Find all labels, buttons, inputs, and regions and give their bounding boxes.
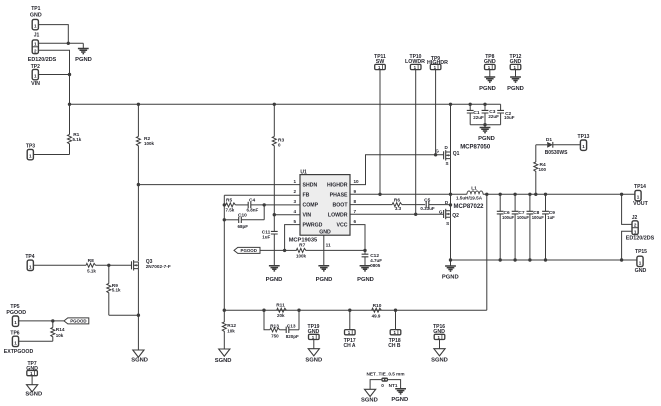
- svg-text:SGND: SGND: [361, 398, 378, 404]
- svg-text:2: 2: [634, 223, 637, 228]
- wire FB vertical: [223, 195, 225, 310]
- svg-text:49.9: 49.9: [372, 313, 381, 318]
- svg-text:1: 1: [637, 195, 640, 200]
- capacitor C8: [527, 194, 545, 260]
- junction VIN rail / C1: [469, 103, 472, 106]
- svg-text:GND: GND: [30, 13, 42, 19]
- resistor R3: [272, 104, 284, 231]
- wire Q2 PGND stub: [450, 260, 452, 266]
- junction FB/C10: [223, 218, 226, 221]
- svg-text:MCP87022: MCP87022: [454, 204, 485, 210]
- junction C9 bottom: [544, 258, 547, 261]
- wire TP7 stub: [31, 376, 33, 385]
- wire VIN rail: [68, 103, 500, 105]
- svg-text:C10: C10: [238, 212, 247, 218]
- wire PGOOD to junction: [260, 249, 285, 251]
- wire Q3 source to SGND: [137, 269, 139, 350]
- junction VIN rail / R1: [68, 103, 71, 106]
- svg-text:750: 750: [271, 334, 279, 339]
- test point TP18: [388, 330, 401, 349]
- svg-text:5.1k: 5.1k: [73, 137, 82, 142]
- wire HIGHDR to gate: [350, 155, 444, 185]
- junction SW/Q1-Q2: [449, 193, 452, 196]
- svg-text:6: 6: [354, 219, 357, 224]
- net tie NT1: [366, 371, 404, 389]
- svg-text:GND: GND: [26, 366, 38, 372]
- wire LOWDR pin 7: [350, 213, 444, 215]
- wire VCC pin 6: [350, 225, 365, 255]
- svg-text:R8: R8: [88, 258, 94, 264]
- wire R13 branch left: [264, 310, 270, 330]
- svg-text:TP13: TP13: [578, 134, 590, 140]
- svg-text:68pF: 68pF: [238, 224, 249, 229]
- svg-text:Q1: Q1: [453, 151, 460, 157]
- wire Q1 source to SW: [450, 159, 452, 195]
- ground SGND (TP19): [305, 349, 322, 364]
- resistor R12: [222, 310, 236, 349]
- svg-text:VOUT: VOUT: [633, 201, 648, 207]
- connector J1: [28, 32, 57, 63]
- junction C6 bottom: [499, 258, 502, 261]
- junction divider/R13: [262, 309, 265, 312]
- svg-text:C4: C4: [249, 197, 255, 203]
- svg-text:100: 100: [539, 167, 547, 172]
- wire TP4 to R8: [33, 264, 86, 266]
- svg-text:0.33uF: 0.33uF: [420, 206, 435, 211]
- svg-text:100k: 100k: [296, 253, 307, 258]
- pin number 4: [293, 209, 296, 214]
- svg-text:1: 1: [14, 320, 17, 325]
- svg-text:5: 5: [293, 219, 296, 224]
- svg-text:PGOOD: PGOOD: [241, 248, 257, 253]
- junction TP5/R14: [51, 319, 54, 322]
- ground PGND (input): [75, 49, 92, 64]
- svg-text:PGND: PGND: [478, 136, 495, 142]
- svg-text:SGND: SGND: [431, 358, 448, 364]
- svg-text:LOWDR: LOWDR: [405, 59, 425, 65]
- capacitor C7: [512, 194, 530, 260]
- transistor Q2: [439, 200, 459, 226]
- resistor R1: [68, 104, 82, 154]
- svg-text:PGND: PGND: [391, 397, 408, 403]
- capacitor C10: [224, 212, 264, 229]
- junction BOOT/SW: [449, 203, 452, 206]
- svg-text:PGND: PGND: [479, 86, 496, 92]
- pin number 5: [293, 219, 296, 224]
- wire C13 branch right: [298, 310, 300, 330]
- wire SHDN: [138, 184, 300, 186]
- svg-text:D1: D1: [546, 137, 552, 143]
- junction VOUT/J2: [620, 193, 623, 196]
- label MCP87050: [460, 145, 491, 151]
- svg-text:SGND: SGND: [25, 392, 42, 398]
- pin number 9: [354, 189, 357, 194]
- svg-text:2N7002-7-F: 2N7002-7-F: [146, 264, 171, 269]
- test point TP10: [405, 54, 425, 70]
- svg-text:1: 1: [639, 260, 642, 265]
- svg-text:SGND: SGND: [131, 357, 148, 363]
- svg-text:1: 1: [293, 179, 296, 184]
- ground SGND (R12): [215, 349, 232, 364]
- resistor R11: [276, 303, 286, 318]
- svg-text:PGOOD: PGOOD: [70, 319, 86, 324]
- test point TP3: [26, 143, 35, 159]
- op-amp U1 MCP19035 box: [289, 170, 350, 244]
- svg-text:100k: 100k: [144, 141, 155, 146]
- wire Q1 drain: [450, 104, 452, 152]
- diode D1: [536, 137, 581, 156]
- svg-text:10k: 10k: [227, 328, 235, 333]
- capacitor C9: [542, 194, 555, 260]
- test point TP2: [31, 64, 40, 87]
- junction VCC/R7: [363, 249, 366, 252]
- wire R9 to Q3 source: [109, 314, 139, 316]
- junction divider/TP17: [348, 309, 351, 312]
- svg-text:PGND: PGND: [507, 86, 524, 92]
- svg-text:4: 4: [293, 209, 296, 214]
- svg-text:GND: GND: [308, 329, 320, 335]
- svg-text:1uF: 1uF: [547, 215, 555, 220]
- junction VOUT/C8: [528, 193, 531, 196]
- test point TP11: [374, 54, 386, 70]
- ground PGND (C11): [266, 266, 283, 283]
- svg-text:TP2: TP2: [31, 64, 40, 70]
- ground SGND (TP7): [25, 385, 42, 398]
- svg-text:10: 10: [354, 179, 360, 184]
- svg-text:1: 1: [34, 24, 37, 29]
- junction VIN rail / C3: [483, 103, 486, 106]
- svg-text:B0530WS: B0530WS: [545, 150, 568, 156]
- svg-text:R5: R5: [226, 197, 232, 203]
- junction C8 bottom: [528, 258, 531, 261]
- svg-text:0805: 0805: [370, 263, 381, 268]
- svg-text:100uF: 100uF: [502, 215, 515, 220]
- svg-text:TP6: TP6: [10, 330, 19, 336]
- wire J2 pin1 to gnd: [622, 231, 632, 260]
- svg-text:CH A: CH A: [343, 343, 355, 349]
- svg-text:7.5k: 7.5k: [226, 207, 235, 212]
- svg-text:10uF: 10uF: [504, 115, 515, 120]
- test point TP7: [26, 361, 38, 376]
- svg-text:R10: R10: [373, 303, 382, 309]
- svg-text:GND: GND: [635, 268, 647, 274]
- test point TP16: [433, 324, 445, 340]
- svg-text:100uF: 100uF: [517, 215, 530, 220]
- pin number 7: [354, 209, 357, 214]
- capacitor C6: [497, 194, 515, 260]
- test point TP12: [510, 54, 522, 70]
- resistor R5: [224, 197, 248, 212]
- svg-text:G: G: [435, 149, 439, 154]
- wire C2 branch: [500, 104, 502, 110]
- test point TP4: [25, 254, 34, 271]
- svg-text:VCC: VCC: [337, 223, 348, 229]
- junction R9/Q3 source: [137, 314, 140, 317]
- svg-text:2: 2: [34, 49, 37, 54]
- wire output ground rail: [451, 259, 622, 261]
- resistor R7: [285, 242, 365, 258]
- svg-text:TP1: TP1: [31, 6, 40, 12]
- capacitor C2: [497, 110, 515, 124]
- svg-text:PGND: PGND: [75, 57, 92, 63]
- junction Q2/gnd rail: [449, 258, 452, 261]
- svg-text:8: 8: [354, 199, 357, 204]
- pin number 6: [354, 219, 357, 224]
- svg-text:R7: R7: [299, 242, 305, 248]
- wire TP8 stub: [489, 70, 491, 77]
- svg-text:FB: FB: [303, 193, 310, 199]
- wire TP10 to LOWDR: [415, 70, 417, 215]
- ground PGND (pin 11): [316, 266, 333, 283]
- wire TP17 stub: [349, 310, 351, 329]
- svg-text:C5: C5: [424, 197, 430, 203]
- wire Q2 drain: [450, 194, 452, 210]
- resistor R8: [86, 258, 131, 274]
- svg-text:GND: GND: [484, 59, 496, 65]
- svg-text:SW: SW: [376, 59, 385, 65]
- resistor R13: [270, 324, 286, 339]
- svg-text:5.1k: 5.1k: [112, 288, 121, 293]
- svg-text:ED120/2DS: ED120/2DS: [626, 236, 655, 242]
- junction divider/R12: [223, 309, 226, 312]
- svg-text:PHASE: PHASE: [330, 193, 348, 199]
- svg-text:MCP87050: MCP87050: [460, 145, 491, 151]
- wire J1 pin2 to VIN rail: [38, 50, 69, 104]
- wire J2 pin2: [622, 194, 632, 224]
- svg-text:R13: R13: [270, 324, 279, 330]
- wire R4 top corner: [535, 173, 537, 194]
- svg-text:Q2: Q2: [452, 213, 459, 219]
- svg-text:1: 1: [14, 340, 17, 345]
- svg-text:U1: U1: [300, 170, 307, 176]
- svg-text:VIN: VIN: [303, 213, 312, 219]
- test point TP15: [635, 249, 648, 274]
- svg-text:SGND: SGND: [305, 358, 322, 364]
- resistor R2: [136, 104, 154, 261]
- svg-text:PGND: PGND: [266, 277, 283, 283]
- svg-text:1: 1: [29, 264, 32, 269]
- capacitor C5: [420, 197, 450, 211]
- wire TP3 to R1: [33, 154, 69, 156]
- test point TP17: [343, 330, 355, 349]
- test point TP8: [484, 54, 496, 70]
- capacitor C13: [286, 324, 299, 340]
- net label PGOOD (U1): [234, 247, 260, 253]
- wire input caps bottom tie: [470, 124, 500, 126]
- svg-text:20k: 20k: [277, 313, 285, 318]
- svg-text:G: G: [439, 209, 443, 214]
- capacitor C1: [467, 104, 484, 124]
- pin number 3: [293, 199, 296, 204]
- svg-text:COMP: COMP: [303, 203, 319, 209]
- capacitor C12: [362, 253, 383, 268]
- wire TP18 stub: [395, 310, 397, 329]
- svg-text:820pF: 820pF: [286, 334, 299, 339]
- svg-text:J1: J1: [34, 32, 40, 38]
- svg-text:1.5uH/19.5A: 1.5uH/19.5A: [456, 196, 483, 201]
- svg-text:1: 1: [582, 144, 585, 149]
- transistor Q3: [132, 259, 171, 271]
- junction R8/R9: [107, 264, 110, 267]
- svg-text:CH B: CH B: [388, 343, 401, 349]
- label MCP87022: [454, 204, 485, 210]
- wire TP6 to R14: [19, 340, 53, 342]
- junction divider/C13: [297, 309, 300, 312]
- svg-text:SGND: SGND: [215, 358, 232, 364]
- pin number 11: [326, 243, 331, 249]
- wire TP11 to SW node: [379, 70, 381, 195]
- ground PGND (input caps): [478, 128, 495, 143]
- inductor L1: [456, 185, 483, 200]
- wire PWRGD pin 5: [285, 225, 300, 251]
- wire VOUT sense vertical: [486, 194, 488, 310]
- ground SGND (Q3): [131, 350, 148, 363]
- test point TP14: [633, 184, 648, 207]
- junction TP10/LOWDR: [414, 213, 417, 216]
- wire TP16 stub: [439, 340, 441, 349]
- junction COMP/C10: [263, 203, 266, 206]
- svg-text:9: 9: [354, 189, 357, 194]
- test point TP9: [427, 56, 448, 70]
- svg-text:22uF: 22uF: [488, 114, 499, 119]
- test point TP5: [6, 304, 26, 326]
- junction SW/TP11: [378, 193, 381, 196]
- pin number 10: [354, 179, 360, 184]
- svg-text:S: S: [445, 161, 448, 166]
- svg-text:TP4: TP4: [25, 254, 34, 260]
- junction caps bottom: [483, 123, 486, 126]
- wire Q2 source: [450, 217, 452, 260]
- test point TP6: [4, 330, 34, 354]
- svg-text:TP14: TP14: [634, 184, 646, 190]
- capacitor C4: [247, 197, 301, 212]
- svg-text:J2: J2: [632, 215, 638, 221]
- svg-text:PGOOD: PGOOD: [6, 310, 26, 316]
- svg-text:EXTPGOOD: EXTPGOOD: [4, 349, 34, 355]
- wire TP19 stub: [313, 340, 315, 349]
- svg-text:R6: R6: [394, 197, 400, 203]
- junction C7 bottom: [513, 258, 516, 261]
- svg-text:PGND: PGND: [316, 277, 333, 283]
- wire VOUT rail: [483, 193, 635, 195]
- wire FB pin 2: [224, 194, 300, 196]
- svg-text:ED120/2DS: ED120/2DS: [28, 57, 57, 63]
- svg-text:TP3: TP3: [26, 143, 35, 149]
- test point TP13: [578, 134, 590, 150]
- svg-text:NT1: NT1: [389, 383, 398, 388]
- svg-text:SHDN: SHDN: [303, 183, 318, 189]
- pin number 8: [354, 199, 357, 204]
- svg-text:LOWDR: LOWDR: [328, 213, 348, 219]
- svg-text:100uF: 100uF: [532, 215, 545, 220]
- junction VOUT/sense: [485, 193, 488, 196]
- svg-text:1: 1: [634, 230, 637, 235]
- test point TP1: [30, 6, 42, 30]
- wire TP15 stub: [622, 259, 637, 261]
- wire BOOT pin 8: [350, 204, 392, 206]
- svg-text:22uF: 22uF: [473, 115, 484, 120]
- svg-text:1: 1: [29, 154, 32, 159]
- junction VIN rail / Q1 drain: [449, 103, 452, 106]
- pin number 2: [293, 189, 296, 194]
- ground PGND (C12): [357, 266, 374, 283]
- svg-text:3.3: 3.3: [395, 206, 402, 211]
- svg-text:NET_TIE_0.5 mm: NET_TIE_0.5 mm: [366, 371, 404, 376]
- svg-text:GND: GND: [510, 59, 522, 65]
- ground PGND (NT1): [391, 389, 408, 403]
- svg-text:11: 11: [326, 243, 331, 249]
- wire C10 right vertical: [263, 205, 265, 220]
- wire PGND stub: [82, 43, 84, 48]
- ground PGND (TP12): [507, 77, 524, 92]
- wire PHASE to SW: [350, 193, 467, 195]
- svg-text:1: 1: [34, 42, 37, 47]
- svg-text:1uF: 1uF: [262, 234, 270, 239]
- ground SGND (TP16): [431, 349, 448, 364]
- svg-text:S: S: [446, 221, 449, 226]
- connector J2: [626, 215, 655, 242]
- wire divider rail: [224, 309, 487, 311]
- svg-text:0: 0: [381, 383, 384, 388]
- junction FB/R5: [223, 203, 226, 206]
- junction gnd rail / TP15: [620, 258, 623, 261]
- svg-text:C13: C13: [287, 324, 296, 330]
- wire TP5 to flag: [19, 320, 64, 322]
- svg-text:BOOT: BOOT: [333, 203, 349, 209]
- resistor R10: [372, 303, 382, 318]
- junction VOUT/C9: [544, 193, 547, 196]
- junction VOUT/C6: [499, 193, 502, 196]
- junction VIN pin tap: [273, 213, 276, 216]
- junction TP2/J1.2: [68, 73, 71, 76]
- wire TP9 to HIGHDR: [435, 70, 437, 155]
- svg-text:GND: GND: [319, 229, 331, 235]
- junction SHDN tap: [137, 183, 140, 186]
- capacitor C3: [482, 104, 500, 124]
- svg-text:GND: GND: [433, 329, 445, 335]
- ground PGND (Q2): [442, 266, 459, 281]
- svg-text:7: 7: [354, 209, 357, 214]
- wire J1 pin1 to PGND: [38, 42, 83, 44]
- svg-text:10k: 10k: [56, 333, 64, 338]
- transistor Q1: [435, 145, 459, 166]
- svg-text:5.1k: 5.1k: [87, 268, 96, 273]
- wire pin 11: [323, 235, 325, 266]
- svg-text:PWRGD: PWRGD: [303, 223, 323, 229]
- svg-text:TP15: TP15: [635, 249, 647, 255]
- resistor R4: [534, 145, 547, 173]
- svg-text:6.8nF: 6.8nF: [247, 207, 259, 212]
- resistor R14: [51, 321, 65, 341]
- junction TP1/J1.1: [67, 42, 70, 45]
- svg-text:PGND: PGND: [357, 277, 374, 283]
- wire TP12 stub: [515, 70, 517, 77]
- svg-text:HIGHDR: HIGHDR: [427, 60, 448, 66]
- wire TP2 to vertical: [38, 74, 69, 76]
- ground SGND (NT1): [361, 389, 378, 403]
- svg-text:HIGHDR: HIGHDR: [327, 183, 348, 189]
- pin number 1: [293, 179, 296, 184]
- junction VOUT/C7: [513, 193, 516, 196]
- wire caps PGND stub: [484, 125, 486, 128]
- junction divider/TP18: [394, 309, 397, 312]
- svg-text:L1: L1: [471, 185, 477, 191]
- resistor R6: [392, 197, 425, 211]
- ground PGND (TP8): [479, 77, 496, 92]
- net label PGOOD (TP5): [64, 318, 89, 324]
- svg-text:PGND: PGND: [442, 275, 459, 281]
- svg-text:3: 3: [293, 199, 296, 204]
